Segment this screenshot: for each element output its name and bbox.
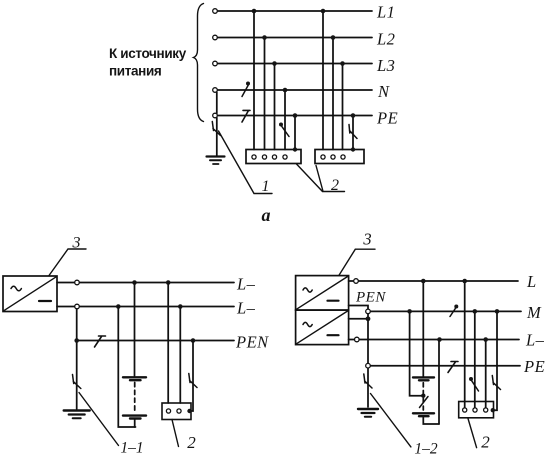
earth electrode plate bottom 1-2 <box>413 412 434 414</box>
wire PE <box>218 115 373 117</box>
leader label 2 right <box>468 419 477 448</box>
wire drop L1 group2 <box>322 11 324 150</box>
joint symbol on PEN drop <box>189 374 197 388</box>
wire earthing conductor <box>216 118 218 156</box>
wire L3 <box>218 63 373 65</box>
svg-text:1–1: 1–1 <box>120 440 143 457</box>
svg-text:L–: L– <box>236 299 256 318</box>
wire M drop 2 to block <box>492 311 497 410</box>
junction La-1 <box>132 280 137 285</box>
wire N-PE source link <box>216 92 218 114</box>
junction L-1 <box>421 279 426 284</box>
ground electrode 1 <box>207 155 225 157</box>
clamp symbol on M wire <box>450 308 456 317</box>
terminal block 1-2 <box>459 402 494 418</box>
junction L--2 <box>483 337 488 342</box>
terminal lower <box>75 304 80 309</box>
junction L1-2 <box>321 9 326 14</box>
leader label 1-2 <box>371 394 411 447</box>
junction PE-1 <box>293 113 298 118</box>
svg-text:PEN: PEN <box>355 290 386 306</box>
wire PEN node riser <box>349 306 368 408</box>
svg-text:2: 2 <box>481 433 490 452</box>
svg-text:N: N <box>377 82 390 101</box>
junction La-2 <box>166 280 171 285</box>
svg-text:L: L <box>526 272 537 291</box>
junction M-2 <box>495 309 500 314</box>
svg-text:питания: питания <box>109 64 161 79</box>
junction PEN right <box>191 338 196 343</box>
junction L--1 <box>437 337 442 342</box>
svg-text:2: 2 <box>187 433 196 452</box>
terminal block 2 <box>315 150 364 164</box>
leader label 2 left <box>172 420 179 447</box>
wire drop L2 group2 <box>332 38 334 150</box>
wire drop L2 group1 <box>264 38 266 150</box>
clamp symbol on N wire <box>242 85 248 97</box>
terminal PE <box>213 113 218 118</box>
buried electrode dashed 1-2 <box>422 383 424 410</box>
terminal L- <box>355 337 360 342</box>
svg-text:PE: PE <box>523 357 545 376</box>
wire L1 <box>218 10 373 12</box>
clamp symbol on N drop <box>279 123 283 127</box>
clamp symbol on PEN wire <box>95 336 106 347</box>
wire L drop to block <box>464 281 466 408</box>
svg-text:3: 3 <box>72 235 81 252</box>
leader label 2 <box>297 164 345 192</box>
joint symbol on earthing conductor <box>212 122 220 136</box>
leader label 1-1 <box>79 393 119 446</box>
wire M drop to electrode <box>410 311 424 395</box>
joint symbol on electrode <box>420 397 429 408</box>
terminal M <box>366 309 371 314</box>
joint symbol on PE drop group2 <box>349 125 357 139</box>
terminal L2 <box>213 35 218 40</box>
junction N-1 <box>283 88 288 93</box>
junction L3-1 <box>272 61 277 66</box>
svg-text:M: M <box>526 303 542 322</box>
svg-text:L1: L1 <box>376 3 395 22</box>
wire L- right <box>349 339 355 341</box>
wire drop L1 group1 <box>253 11 255 150</box>
ground electrode 1-1 <box>64 409 90 411</box>
wire drop PE group2 <box>352 116 354 150</box>
svg-text:L2: L2 <box>376 30 395 49</box>
leader label 3 left <box>49 249 86 276</box>
earth electrode plate top 1-1 <box>123 376 146 378</box>
wire drop to block c2 <box>179 307 181 404</box>
terminal block 1-1 <box>162 403 191 420</box>
junction L3-2 <box>340 61 345 66</box>
junction M-1 <box>473 309 478 314</box>
wire N <box>218 89 373 91</box>
junction M-0 <box>407 309 412 314</box>
wire drop L3 group1 <box>274 64 276 150</box>
svg-text:а: а <box>262 205 271 225</box>
buried electrode dashed 1-1 <box>134 383 136 413</box>
terminal L <box>354 279 359 284</box>
junction L-2 <box>462 279 467 284</box>
junction PEN node <box>366 316 371 321</box>
leader label 1 <box>219 131 273 194</box>
svg-text:PEN: PEN <box>235 333 269 352</box>
wire drop to block c1 <box>167 283 169 404</box>
converter U1 <box>3 276 57 312</box>
svg-text:1–2: 1–2 <box>414 441 438 458</box>
terminal block 1 <box>246 150 301 164</box>
wire box2 input stub <box>349 318 368 320</box>
wire M drop to block <box>474 311 476 408</box>
svg-text:PE: PE <box>376 109 398 128</box>
brace <box>194 4 204 122</box>
wire L- lower <box>57 306 234 308</box>
svg-text:К источнику: К источнику <box>109 46 187 61</box>
ground electrode 1-2 <box>358 408 378 410</box>
leader label 3 right <box>339 249 375 275</box>
terminal L1 <box>213 9 218 14</box>
wire L- drop <box>438 340 440 425</box>
junction Lb-1 <box>116 304 121 309</box>
wire L- upper <box>57 282 234 284</box>
wire loop left <box>118 307 135 428</box>
earth electrode plate bottom 1-1 <box>123 414 146 416</box>
wire drop L3 group2 <box>342 64 344 150</box>
junction electrode tap <box>421 394 425 398</box>
wire electrode feed <box>134 283 136 377</box>
terminal L3 <box>213 61 218 66</box>
svg-text:2: 2 <box>331 177 339 194</box>
wire drop N group1 <box>284 90 286 150</box>
terminal PE <box>366 363 371 368</box>
junction L1-1 <box>252 9 257 14</box>
terminal N <box>213 88 218 93</box>
junction PE-2 <box>351 113 356 118</box>
converter U3 <box>296 310 349 345</box>
joint symbol on M drop 2 <box>492 376 500 390</box>
converter U2 <box>296 276 349 311</box>
clamp symbol on PE wire <box>242 110 250 122</box>
junction PEN start <box>74 338 79 343</box>
svg-text:1: 1 <box>262 178 270 195</box>
wire L drop to electrode <box>422 281 424 376</box>
wire PEN drop to block <box>189 341 194 412</box>
svg-text:L3: L3 <box>376 56 395 75</box>
junction L2-2 <box>331 35 336 40</box>
clamp symbol on PE wire right <box>448 362 458 373</box>
svg-text:3: 3 <box>362 230 371 249</box>
wire L- drop to block <box>485 340 487 408</box>
earth electrode plate top 1-2 <box>413 376 434 378</box>
terminal upper <box>75 280 80 285</box>
joint symbol on earth wire 1-1 <box>73 375 81 389</box>
wire drop PE group1 <box>294 116 296 150</box>
wire PEN left <box>77 340 234 342</box>
wire electrode bottom link <box>134 420 136 427</box>
junction Lb-2 <box>178 304 183 309</box>
wire PE right <box>368 365 520 367</box>
wire L2 <box>218 37 373 39</box>
junction L2-1 <box>262 35 267 40</box>
svg-text:L–: L– <box>236 275 256 294</box>
joint symbol on earth wire 1-2 <box>364 374 372 388</box>
clamp symbol on M drop <box>469 377 473 381</box>
wire electrode bottom link 1-2 <box>423 418 439 425</box>
wire M right <box>368 310 521 312</box>
svg-text:L–: L– <box>525 331 545 350</box>
wire L right <box>349 280 354 282</box>
wire PEN riser and earth <box>76 309 78 409</box>
